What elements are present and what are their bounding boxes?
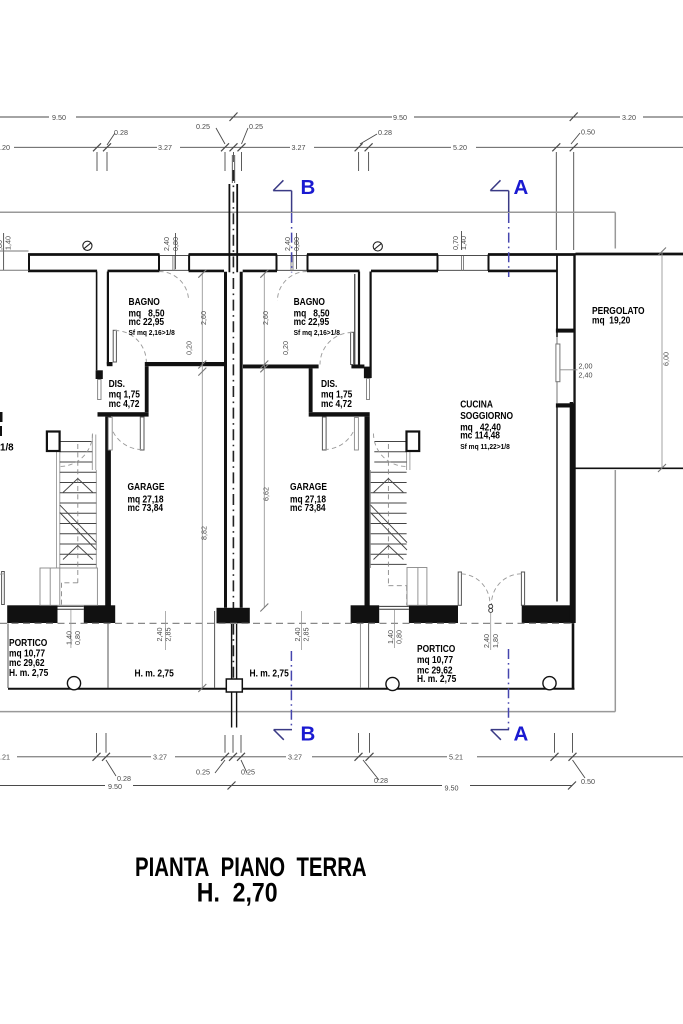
svg-text:H. m. 2,75: H. m. 2,75: [135, 668, 174, 679]
right unit: bagno bottom wall pieces: [243, 365, 319, 369]
left unit: bagno bottom wall pieces: [107, 362, 113, 366]
right unit: door block: [364, 367, 371, 379]
garage door centre ext line left: [165, 611, 167, 650]
portico divider at garage wall left unit: [107, 623, 109, 688]
bottom dim texts: [0, 753, 595, 793]
svg-text:mc 73,84: mc 73,84: [290, 502, 326, 513]
svg-text:.20: .20: [0, 143, 10, 152]
svg-text:3.20: 3.20: [622, 113, 636, 122]
svg-text:1,40: 1,40: [4, 236, 13, 250]
SEC:doors: [0, 271, 525, 612]
svg-text:8,82: 8,82: [200, 526, 209, 540]
window mullions: [173, 255, 464, 270]
band end caps: [29, 255, 489, 272]
svg-text:DIS.: DIS.: [321, 378, 337, 389]
svg-text:mc 22,95: mc 22,95: [294, 316, 330, 327]
left landing: [40, 568, 97, 605]
left GARAGE labels: [128, 481, 165, 513]
north wall band: bottom thick line: [28, 270, 557, 273]
portico bottom edge line: [8, 688, 575, 690]
svg-text:2,40: 2,40: [162, 237, 171, 251]
svg-text:2,85: 2,85: [302, 628, 311, 642]
portico divider at party plinth left: [214, 611, 216, 688]
svg-text:0.28: 0.28: [114, 128, 128, 137]
left edge window dim: vertical + rotated labels: [3, 233, 5, 270]
svg-text:B: B: [301, 723, 316, 746]
left stair walking line dashed: [62, 444, 78, 605]
section A top flag: [490, 180, 508, 212]
right stair walking line dashed: [388, 444, 406, 605]
bottom dim row2 line: [0, 785, 572, 787]
portico column right: [543, 677, 556, 690]
svg-text:1/8: 1/8: [0, 443, 14, 454]
svg-text:PORTICO: PORTICO: [9, 637, 47, 648]
right DIS door leaf at partition: [322, 417, 326, 450]
svg-text:0,20: 0,20: [281, 341, 290, 355]
garage door centre ext line right: [301, 611, 303, 650]
right PORTICO block: [417, 643, 456, 684]
eaves right vertical upper: [614, 212, 616, 248]
party wall centre dash-dot line: [232, 170, 234, 680]
portico divider west edge: [7, 623, 9, 688]
svg-text:0.25: 0.25: [241, 768, 255, 777]
SEC:dims-top: [0, 113, 683, 271]
east wall window (pergolato side): [556, 344, 560, 382]
SEC:dims-bottom: [0, 311, 683, 793]
PERGOLATO labels: [592, 305, 645, 325]
eaves right vertical lower: [614, 470, 616, 712]
french door ext line: [490, 613, 492, 650]
left DIS door arc in garage: [110, 417, 143, 450]
left bagno door arc: [115, 331, 147, 363]
window sills in band gaps: [160, 255, 489, 270]
right BAGNO labels: [294, 296, 330, 327]
svg-text:9.50: 9.50: [393, 113, 407, 122]
party wall stub below plinth: [232, 623, 237, 727]
right stair break diagonals: [371, 505, 408, 550]
svg-text:0,80: 0,80: [73, 631, 82, 645]
left DIS door leaf at partition: [140, 417, 144, 450]
party wall plinth: [217, 608, 250, 624]
svg-text:2,00: 2,00: [579, 362, 593, 371]
west edge clipped room label fragments: [0, 412, 3, 422]
downpipe box at portico line: [226, 679, 242, 692]
rotated dim labels vertical chains: [185, 311, 671, 540]
svg-text:9.50: 9.50: [445, 784, 459, 793]
svg-text:Sf mq 11,22>1/8: Sf mq 11,22>1/8: [460, 444, 510, 451]
svg-text:6,62: 6,62: [262, 487, 271, 501]
svg-text:BAGNO: BAGNO: [294, 296, 325, 307]
svg-text:3.27: 3.27: [288, 753, 302, 762]
svg-text:2,60: 2,60: [199, 311, 208, 325]
left DIS labels: [109, 378, 140, 409]
french door left leaf (right unit): [458, 572, 461, 605]
party wall main faces: [224, 272, 227, 608]
portico dashed boundary line: [0, 622, 574, 624]
row1 tick at 573.7: [570, 113, 578, 122]
left stair stringers: [57, 441, 60, 568]
vent circle right: [373, 242, 382, 251]
vent circle left: [83, 241, 92, 250]
row3 extension verticals: [97, 152, 574, 250]
pergolato dim line 6,00: [661, 252, 663, 469]
svg-text:3.27: 3.27: [153, 753, 167, 762]
svg-text:H. m. 2,75: H. m. 2,75: [250, 668, 289, 679]
leaders to floating labels below: [106, 760, 585, 780]
svg-text:mc 4,72: mc 4,72: [321, 398, 352, 409]
east wall outer thick lower: [570, 402, 575, 623]
svg-text:GARAGE: GARAGE: [290, 481, 327, 492]
svg-text:0.25: 0.25: [196, 768, 210, 777]
dim row1 line 9.50 | 9.50 | 3.20: [0, 116, 683, 118]
right bagno door arc: [320, 333, 352, 365]
left pillar: [47, 432, 60, 452]
row3 ticks: [93, 143, 578, 151]
svg-text:mq 10,77: mq 10,77: [417, 654, 453, 665]
east wall window labels 2,00/2,40: [579, 362, 593, 380]
right pillar: [407, 432, 420, 452]
left stair treads: [60, 442, 97, 565]
svg-text:1,40: 1,40: [459, 236, 468, 250]
rotated window dim labels: left edge: [0, 236, 468, 251]
svg-text:mc 4,72: mc 4,72: [109, 398, 140, 409]
left BAGNO labels: [129, 296, 165, 327]
svg-text:2,40: 2,40: [579, 371, 593, 380]
section B top dash-dot: [291, 213, 293, 273]
svg-text:DIS.: DIS.: [109, 378, 125, 389]
svg-text:.21: .21: [0, 753, 10, 762]
french door right leaf (right unit): [521, 572, 524, 605]
far-left cut window sills: [0, 251, 29, 270]
svg-text:9.50: 9.50: [108, 782, 122, 791]
left unit: door block on left wall: [96, 370, 103, 379]
svg-text:mc 73,84: mc 73,84: [128, 502, 164, 513]
right DIS labels: [321, 378, 352, 409]
right bagno window swing arc: [277, 271, 307, 301]
right leaning leaf on garage wall: [354, 418, 358, 451]
left unit: garage west wall plinth: [84, 605, 115, 623]
svg-text:CUCINA: CUCINA: [460, 399, 493, 410]
svg-text:9.50: 9.50: [52, 113, 66, 122]
svg-text:0.50: 0.50: [581, 128, 595, 137]
svg-text:0.25: 0.25: [249, 122, 263, 131]
right unit: bottom window sills: [379, 606, 409, 609]
right pillar door arc dashed: [374, 434, 407, 467]
right unit: bottom wall east piece: [522, 605, 575, 623]
left PORTICO block: [9, 637, 48, 678]
svg-text:2,85: 2,85: [164, 628, 173, 642]
SEC:party: [217, 170, 250, 728]
portico right side wall: [572, 623, 575, 689]
svg-text:B: B: [301, 176, 316, 199]
left bagno door leaf: [113, 330, 116, 362]
svg-text:0,80: 0,80: [395, 630, 404, 644]
right unit: bagno east wall lines: [354, 274, 356, 365]
roof eaves outline top: [0, 211, 615, 213]
portico divider right unit west: [368, 623, 370, 688]
svg-text:0,20: 0,20: [185, 341, 194, 355]
svg-text:1,80: 1,80: [491, 634, 500, 648]
row1 ticks: [93, 753, 577, 761]
svg-text:PORTICO: PORTICO: [417, 643, 455, 654]
dim row3 line .20|0.28|3.27|0.25|0.25|3.27|0.28|5.20|0.50: [14, 146, 683, 148]
right stair chevrons: [374, 479, 404, 560]
svg-text:mc 22,95: mc 22,95: [129, 316, 165, 327]
portico column left: [67, 677, 80, 690]
section B bottom flag: [274, 730, 292, 740]
SEC:blue: [273, 176, 528, 746]
leaders for floating labels: [107, 128, 580, 145]
left unit: bottom window sills: [58, 606, 84, 609]
section A bottom flag: [491, 730, 509, 740]
left unit: bottom wall west piece: [7, 605, 57, 623]
right unit: garage east wall plinth: [351, 605, 380, 623]
top dim texts: [0, 113, 636, 152]
east window leader + labels drawn in labels section: [560, 369, 578, 371]
svg-text:0.50: 0.50: [581, 777, 595, 786]
right GARAGE labels: [290, 481, 327, 513]
svg-text:0.28: 0.28: [374, 776, 388, 785]
SEC:eaves: [0, 212, 615, 711]
right bagno door leaf: [351, 332, 354, 364]
section A top dash-dot: [508, 213, 510, 277]
right DIS door arc in garage: [324, 417, 357, 450]
svg-text:SOGGIORNO: SOGGIORNO: [460, 410, 513, 421]
portico column middle: [386, 677, 399, 690]
bottom dim row1 line: [17, 756, 683, 758]
svg-text:5.21: 5.21: [449, 753, 463, 762]
svg-text:2,40: 2,40: [482, 634, 491, 648]
section B top flag: [273, 180, 291, 212]
right unit: DIS bottom wall: [309, 412, 370, 416]
svg-text:GARAGE: GARAGE: [128, 481, 165, 492]
svg-text:0.25: 0.25: [196, 122, 210, 131]
svg-text:mq 19,20: mq 19,20: [592, 315, 630, 326]
right unit: garage east wall: [365, 417, 370, 606]
svg-text:H. 2,70: H. 2,70: [197, 878, 278, 908]
svg-text:0.28: 0.28: [378, 128, 392, 137]
svg-text:3.27: 3.27: [158, 143, 172, 152]
left unit french door leaf at west edge: [2, 572, 5, 605]
left unit: garage west wall: [105, 417, 111, 606]
pergolato top beam: [576, 253, 683, 256]
row2 ticks: [228, 782, 577, 790]
left unit: DIS bottom wall: [98, 412, 149, 416]
svg-text:A: A: [514, 723, 529, 746]
right stair treads: [371, 442, 407, 565]
left bagno window swing arc: [159, 272, 189, 302]
SEC:stairs: [40, 432, 427, 606]
east wall inner thin line: [556, 408, 558, 602]
svg-text:Sf mq 2,16>1/8: Sf mq 2,16>1/8: [294, 330, 340, 337]
left leaning leaf on garage wall: [108, 418, 112, 451]
row1 tick at party: [230, 113, 238, 122]
window ext line left unit: [70, 610, 72, 648]
right stair stringers: [407, 435, 410, 471]
right DIS-cucina door leaf: [367, 379, 370, 400]
right unit: bottom wall piece between window and french door: [409, 605, 458, 623]
svg-text:5.20: 5.20: [453, 143, 467, 152]
svg-text:H. m. 2,75: H. m. 2,75: [9, 667, 48, 678]
window dim extension verticals: [176, 231, 462, 269]
svg-text:2,40: 2,40: [283, 237, 292, 251]
SEC:labels: [0, 296, 645, 684]
CUCINA SOGGIORNO labels: [460, 399, 513, 441]
dim line 8,82 left: [201, 274, 203, 688]
dim line 2,60/0,20/6,62 right: [263, 274, 265, 608]
rotated labels: garage doors / windows / french door: [65, 628, 501, 649]
svg-text:A: A: [514, 176, 529, 199]
svg-text:Sf mq 2,16>1/8: Sf mq 2,16>1/8: [129, 330, 175, 337]
section A bottom dash-dot: [508, 649, 510, 729]
svg-text:6,00: 6,00: [662, 352, 671, 366]
left unit: DIS partition: [145, 366, 149, 412]
SEC:title: [135, 852, 367, 908]
right landing: [407, 568, 427, 606]
left unit: soggiorno/bagno dividing wall: [96, 272, 98, 371]
window ext lines right unit: [394, 610, 396, 648]
north wall band: top thick line: [28, 253, 576, 256]
eaves bottom line: [0, 711, 615, 713]
svg-text:H. m. 2,75: H. m. 2,75: [417, 673, 456, 684]
east wall outer thick upper: [556, 256, 558, 338]
right unit: DIS partition: [309, 368, 313, 412]
right unit: cucina west wall: [370, 272, 372, 379]
pergolato bottom line: [574, 467, 683, 469]
svg-text:3.27: 3.27: [292, 143, 306, 152]
left stair break diagonals: [60, 505, 97, 550]
svg-text:BAGNO: BAGNO: [129, 296, 160, 307]
left unit french door arc (cut): [0, 574, 4, 606]
row1 extension verticals going up: [97, 733, 573, 753]
svg-text:mc 114,48: mc 114,48: [460, 430, 500, 441]
left DIS-soggiorno door leaf: [98, 380, 101, 400]
SEC:walls: [0, 241, 683, 689]
left pillar door arc dashed: [60, 434, 93, 467]
french door arcs: [461, 574, 490, 606]
SEC:portico: [0, 248, 666, 693]
section B bottom dash-dot: [290, 651, 292, 729]
party extension double above chimney: [232, 155, 234, 183]
party wall chimney above roof: [229, 184, 237, 272]
french door center mark "8": [489, 604, 493, 608]
svg-text:2,60: 2,60: [261, 311, 270, 325]
left stair chevrons: [63, 479, 93, 560]
